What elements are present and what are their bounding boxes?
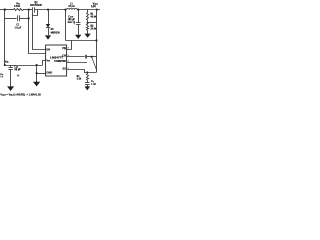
resistor R_C <box>87 72 89 80</box>
node rail right junction <box>96 9 98 11</box>
wire ISENSE from rail to IC pin <box>29 10 46 54</box>
node SW junction <box>65 9 67 11</box>
label R_C value <box>77 75 82 81</box>
ground for C_OUT <box>75 35 81 39</box>
inductor L1 <box>67 9 78 10</box>
svg-text:= 1.58V/1.28: = 1.58V/1.28 <box>27 94 42 97</box>
pin number 1 <box>68 68 69 70</box>
capacitor C_IN <box>8 65 12 87</box>
wire C1 branch <box>5 18 29 20</box>
svg-text:15 µH: 15 µH <box>68 6 75 8</box>
ground for C_IN <box>7 86 14 91</box>
label V_OUT <box>91 2 99 8</box>
svg-text:8: 8 <box>68 48 69 50</box>
node C1 to ISENSE wire <box>28 17 30 19</box>
ground for D1 <box>45 35 51 39</box>
capacitor C_OUT <box>76 10 81 35</box>
svg-text:LM3477T: LM3477T <box>50 56 63 60</box>
label R1 value <box>90 14 97 19</box>
wire right column <box>96 10 98 73</box>
wire FB node to column <box>88 22 97 24</box>
node Q1 sense junction <box>28 9 30 11</box>
pin label COMP/SD <box>54 60 66 63</box>
label output formula <box>0 93 41 96</box>
label C_OUT value <box>68 16 76 24</box>
svg-text:2: 2 <box>68 61 69 63</box>
wire input bottom bus <box>5 65 42 67</box>
label C_IN value <box>14 65 21 77</box>
wire ground column <box>36 65 38 83</box>
capacitor C_C <box>85 81 90 88</box>
label corner note <box>0 73 4 78</box>
svg-text:180 µF: 180 µF <box>68 19 76 21</box>
wire V_IN top rail <box>0 9 100 11</box>
node GND pin junction <box>36 72 38 74</box>
wire FB pin route <box>67 41 72 50</box>
label V_IN <box>5 59 9 63</box>
node CB junction <box>91 56 93 58</box>
svg-text:FDC5614P: FDC5614P <box>30 4 42 7</box>
wire VIN pin riser <box>43 61 46 66</box>
wire divider mid <box>87 20 89 25</box>
node FB divider <box>87 22 89 24</box>
ground for comp RC <box>85 86 91 90</box>
pin label FB <box>62 46 66 50</box>
label C_C value <box>91 80 97 86</box>
capacitor C1 plates <box>18 15 20 21</box>
pin label VIN <box>46 58 50 62</box>
op-amp U1 LM3477T box <box>46 45 67 76</box>
resistor R2 <box>87 25 89 31</box>
wire diagonal <box>92 57 97 71</box>
svg-text:68 µF: 68 µF <box>15 68 22 71</box>
svg-text:MBR330: MBR330 <box>51 33 61 35</box>
transistor Q1 symbol <box>33 7 38 15</box>
svg-text:COMP/SD: COMP/SD <box>54 60 66 63</box>
label U1 name <box>50 55 63 59</box>
wire GND pin stub <box>37 73 46 75</box>
label C1 value <box>14 24 21 30</box>
wire V_IN left drop <box>4 10 6 65</box>
wire SS pin route <box>67 70 97 73</box>
resistor R_SC <box>14 9 24 11</box>
pin label SS <box>62 66 66 70</box>
resistor R1 <box>87 10 89 20</box>
pin label CB <box>62 53 66 57</box>
label C_OUT plus <box>73 22 75 25</box>
svg-text:1: 1 <box>68 68 69 70</box>
svg-text:30.9k: 30.9k <box>91 29 97 31</box>
ground for divider <box>84 34 90 38</box>
label R2 value <box>90 26 97 31</box>
wire bottom bus <box>66 40 97 42</box>
pin number 6 <box>68 55 69 57</box>
svg-text:1 nF: 1 nF <box>91 83 96 86</box>
node switch node <box>47 9 49 11</box>
node ground bus junction <box>36 64 38 66</box>
node input junction <box>4 9 6 11</box>
diode D1 <box>46 10 50 36</box>
label D1 <box>51 29 61 35</box>
wire PGATE from Q1 gate to IC pin <box>33 16 46 50</box>
node comp RC junction <box>87 72 89 74</box>
wire SW drop <box>65 10 67 41</box>
wire COMP/SD stub <box>67 62 87 64</box>
svg-text:1.0: 1.0 <box>17 75 20 77</box>
wire R2 bottom <box>87 30 89 33</box>
capacitor CB series <box>67 55 97 59</box>
label L1 value <box>68 3 75 8</box>
svg-text:6: 6 <box>68 55 69 57</box>
svg-text:0.033: 0.033 <box>14 6 20 8</box>
pin label GND <box>46 71 52 75</box>
svg-text:3.3V: 3.3V <box>91 5 96 8</box>
label R_SC value <box>14 3 21 8</box>
pin number 2 <box>68 61 69 63</box>
svg-text:1.0 µF: 1.0 µF <box>15 27 22 30</box>
label Q1 <box>30 1 42 7</box>
ground for IC GND <box>33 82 40 87</box>
node C_OUT junction <box>77 9 79 11</box>
pin label IS <box>46 47 50 51</box>
pin number 8 <box>68 48 69 50</box>
svg-text:3.3k: 3.3k <box>77 78 82 81</box>
node bus right junction <box>96 40 98 42</box>
node input bottom junction <box>4 64 6 66</box>
